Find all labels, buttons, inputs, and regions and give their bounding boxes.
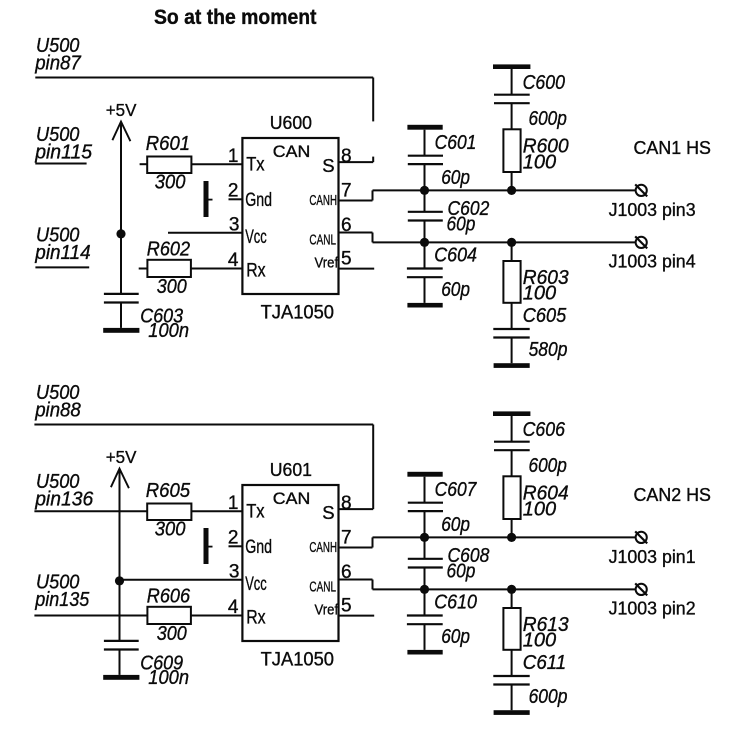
svg-text:J1003 pin3: J1003 pin3 <box>609 199 696 220</box>
svg-text:CAN: CAN <box>273 143 311 161</box>
capacitor C610 <box>407 589 477 650</box>
resistor R613 <box>503 589 568 651</box>
svg-text:300: 300 <box>155 519 186 541</box>
node R613 / CANL junction <box>507 585 516 594</box>
svg-text:CAN: CAN <box>273 490 311 508</box>
connector J1003 pin2 <box>609 583 696 618</box>
svg-text:C604: C604 <box>434 245 477 267</box>
svg-text:pin136: pin136 <box>34 489 94 511</box>
svg-text:580p: 580p <box>529 339 568 361</box>
wire +5V rail <box>120 122 122 294</box>
svg-text:300: 300 <box>157 623 187 645</box>
node CANL junction <box>420 585 429 594</box>
resistor R601 <box>146 133 192 194</box>
svg-text:1: 1 <box>228 146 239 167</box>
svg-text:60p: 60p <box>441 626 470 648</box>
svg-text:300: 300 <box>155 172 186 194</box>
svg-text:Vcc: Vcc <box>245 574 267 595</box>
capacitor C609 <box>104 641 189 689</box>
svg-text:8: 8 <box>341 146 352 167</box>
connector J1003 pin3 <box>609 184 696 219</box>
wire pin115 to R601 <box>140 163 147 165</box>
resistor R604 <box>503 476 568 537</box>
svg-text:C610: C610 <box>434 592 477 614</box>
svg-text:Vref: Vref <box>315 602 339 619</box>
svg-text:100: 100 <box>523 152 556 174</box>
capacitor C611 <box>493 650 567 710</box>
resistor R600 <box>503 129 568 190</box>
svg-text:R606: R606 <box>147 586 191 608</box>
wire pin114 stub <box>35 266 89 268</box>
op-amp U600 (CAN transceiver TJA1050) <box>242 112 338 323</box>
svg-text:60p: 60p <box>447 560 476 582</box>
svg-text:Tx: Tx <box>246 155 265 176</box>
svg-text:J1003 pin4: J1003 pin4 <box>609 251 696 272</box>
svg-text:CANL: CANL <box>309 578 336 595</box>
connector J1003 pin4 <box>609 236 696 271</box>
wire +5V rail <box>119 469 121 641</box>
node junction on +5V rail <box>115 576 124 585</box>
node pin87 (net label) <box>34 35 81 74</box>
resistor R603 <box>503 242 568 304</box>
resistor R602 <box>147 239 191 299</box>
svg-text:100: 100 <box>523 630 556 652</box>
wire pin 5 (Vref) <box>339 596 375 617</box>
connector J1003 pin1 <box>609 531 696 566</box>
svg-text:600p: 600p <box>529 686 568 708</box>
svg-text:CANH: CANH <box>309 192 337 209</box>
wire pin 2 <box>228 528 242 549</box>
capacitor C608 <box>408 537 490 589</box>
ground (C600 top bar) <box>493 64 530 69</box>
svg-text:So at the moment: So at the moment <box>154 6 317 29</box>
svg-text:Tx: Tx <box>246 502 265 523</box>
svg-text:Vcc: Vcc <box>245 227 267 248</box>
ground (C606 top bar) <box>493 411 530 416</box>
svg-text:100n: 100n <box>148 320 189 342</box>
wire R602 to pin 4 <box>191 250 243 271</box>
node junction on +5V rail <box>116 229 125 238</box>
power +5V symbol <box>106 100 137 141</box>
op-amp U601 (CAN transceiver TJA1050) <box>242 459 338 670</box>
svg-text:600p: 600p <box>529 455 567 477</box>
power +5V symbol <box>106 447 137 488</box>
svg-text:C611: C611 <box>523 652 566 674</box>
svg-text:pin115: pin115 <box>34 142 93 164</box>
capacitor C603 <box>104 294 189 342</box>
svg-text:7: 7 <box>341 527 352 548</box>
svg-text:CAN2 HS: CAN2 HS <box>634 484 712 505</box>
svg-text:100: 100 <box>523 283 556 305</box>
svg-text:100: 100 <box>523 499 556 521</box>
svg-text:pin114: pin114 <box>34 242 90 264</box>
svg-text:Gnd: Gnd <box>245 537 272 558</box>
capacitor C604 <box>407 242 477 303</box>
wire pin 7 (CANH) <box>339 527 636 548</box>
svg-text:4: 4 <box>228 597 239 618</box>
wire pin 2 <box>228 181 242 202</box>
svg-text:CANH: CANH <box>309 539 337 556</box>
svg-text:J1003 pin2: J1003 pin2 <box>609 598 696 619</box>
wire R605 to pin 1 <box>191 493 242 514</box>
wire R606 to pin 4 <box>191 597 243 618</box>
capacitor C605 <box>493 303 567 363</box>
svg-text:100n: 100n <box>148 667 189 689</box>
capacitor C602 <box>408 190 490 242</box>
node pin114 (net label) <box>34 225 90 265</box>
svg-text:Rx: Rx <box>246 260 266 281</box>
svg-text:U601: U601 <box>270 459 312 480</box>
ground (C603) <box>103 328 139 333</box>
svg-text:Gnd: Gnd <box>245 190 272 211</box>
svg-text:CAN1 HS: CAN1 HS <box>634 137 712 158</box>
node CANL junction <box>420 238 429 247</box>
wire pin115 stub <box>35 163 86 165</box>
svg-text:8: 8 <box>341 493 352 514</box>
ground (C609) <box>103 675 139 680</box>
capacitor C606 <box>494 416 567 477</box>
ground (pin 2 bar) <box>204 181 213 217</box>
svg-text:300: 300 <box>157 276 187 298</box>
wire pin 7 (CANH) <box>339 180 636 201</box>
node pin115 (net label) <box>34 124 93 164</box>
svg-text:C607: C607 <box>435 479 478 501</box>
wire pin135 to R606 <box>34 615 147 617</box>
wire pin88 to U601 pin 8 <box>34 425 373 510</box>
wire +5V to pin 3 (Vcc) <box>168 215 242 236</box>
wire R601 to pin 1 <box>191 146 242 167</box>
node pin135 (net label) <box>34 572 90 612</box>
svg-text:+5V: +5V <box>106 447 137 467</box>
resistor R606 <box>147 586 191 646</box>
resistor R605 <box>146 480 192 541</box>
svg-text:CANL: CANL <box>309 231 336 248</box>
svg-text:1: 1 <box>228 493 239 514</box>
wire pin 6 (CANL) <box>339 562 636 590</box>
ground (C601 top bar) <box>407 125 442 130</box>
capacitor C600 <box>494 69 567 130</box>
node CANH junction <box>420 186 429 195</box>
svg-text:60p: 60p <box>441 167 470 189</box>
svg-text:TJA1050: TJA1050 <box>261 649 334 670</box>
svg-text:U600: U600 <box>270 112 312 133</box>
svg-text:C606: C606 <box>523 419 566 441</box>
ground (C607 top bar) <box>407 472 442 477</box>
svg-text:S: S <box>322 155 334 176</box>
svg-text:60p: 60p <box>441 514 470 536</box>
svg-text:7: 7 <box>341 180 352 201</box>
svg-text:pin135: pin135 <box>34 589 90 611</box>
capacitor C607 <box>408 477 477 538</box>
svg-text:pin87: pin87 <box>34 52 81 74</box>
svg-text:pin88: pin88 <box>34 399 81 421</box>
node R600 / CANH junction <box>507 186 516 195</box>
ground (C604 bottom bar) <box>407 303 442 308</box>
svg-text:TJA1050: TJA1050 <box>261 302 334 323</box>
wire pin87 to U600 pin 8 <box>35 78 373 163</box>
wire pin 5 (Vref) <box>339 249 375 270</box>
svg-text:4: 4 <box>228 250 239 271</box>
wire pin 6 (CANL) <box>339 215 636 243</box>
svg-text:S: S <box>322 502 334 523</box>
node R603 / CANL junction <box>507 238 516 247</box>
svg-text:60p: 60p <box>441 279 470 301</box>
svg-text:C605: C605 <box>523 305 567 327</box>
ground (C611 bottom bar) <box>494 710 530 715</box>
ground (pin 2 bar) <box>204 528 213 564</box>
svg-text:Rx: Rx <box>246 607 266 628</box>
svg-text:Vref: Vref <box>315 255 339 272</box>
node pin88 (net label) <box>34 382 81 421</box>
node R604 / CANH junction <box>507 533 516 542</box>
svg-text:60p: 60p <box>447 213 476 235</box>
svg-text:+5V: +5V <box>106 100 137 120</box>
ground (C605 bottom bar) <box>494 363 530 368</box>
node CANH junction <box>420 533 429 542</box>
node pin136 (net label) <box>34 471 94 511</box>
wire pin136 to R605 <box>34 510 147 512</box>
svg-text:C601: C601 <box>435 132 477 154</box>
svg-text:R602: R602 <box>147 239 190 261</box>
svg-text:C600: C600 <box>523 72 565 94</box>
svg-text:5: 5 <box>341 249 352 270</box>
svg-text:600p: 600p <box>529 108 567 130</box>
svg-text:R601: R601 <box>146 133 190 155</box>
svg-text:J1003 pin1: J1003 pin1 <box>609 546 696 567</box>
svg-text:5: 5 <box>341 596 352 617</box>
wire pin114 to R602 <box>139 268 148 270</box>
ground (C610 bottom bar) <box>407 650 442 655</box>
wire +5V to pin 3 (Vcc) <box>120 562 243 583</box>
capacitor C601 <box>408 130 477 191</box>
svg-text:R605: R605 <box>146 480 191 502</box>
